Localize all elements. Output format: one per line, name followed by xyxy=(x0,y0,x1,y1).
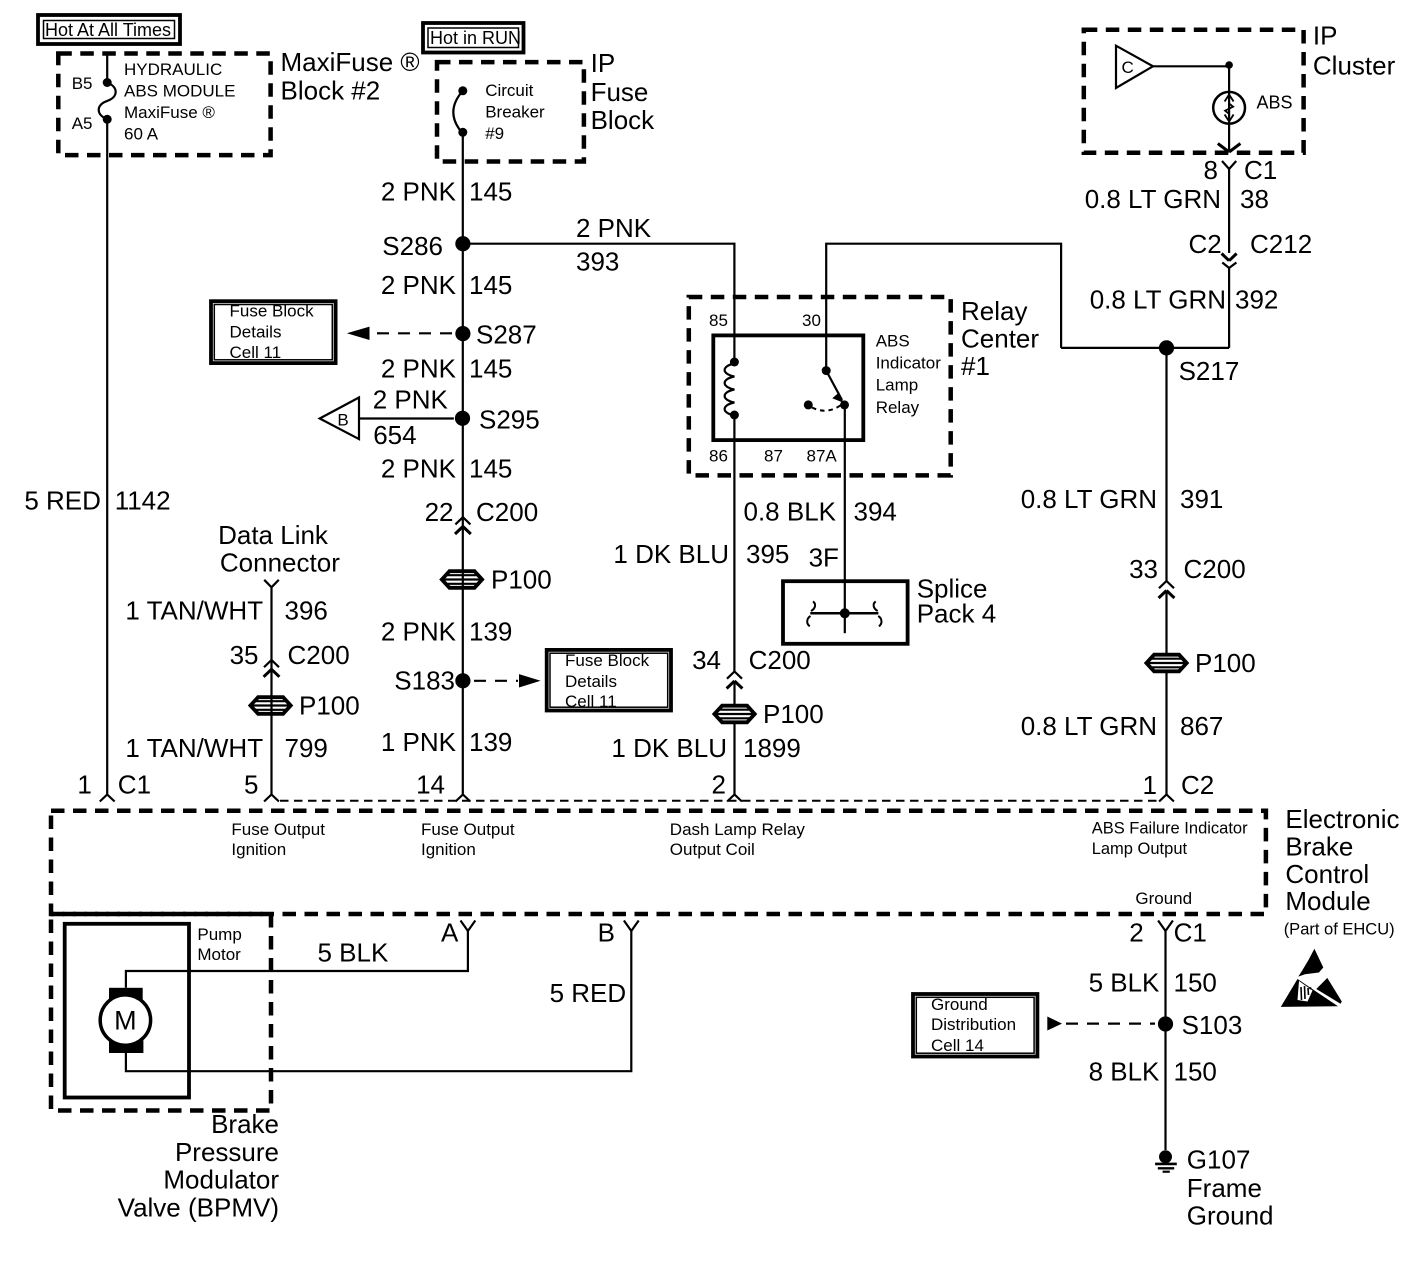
svg-text:Frame: Frame xyxy=(1187,1173,1262,1203)
svg-text:Output Coil: Output Coil xyxy=(670,840,755,859)
terminal A chevron Y xyxy=(461,921,476,932)
svg-text:0.8 LT GRN: 0.8 LT GRN xyxy=(1021,711,1157,741)
svg-text:#9: #9 xyxy=(485,124,504,143)
label 1 TAN/WHT 799 xyxy=(125,733,328,763)
svg-text:S286: S286 xyxy=(382,231,443,261)
svg-text:Pump: Pump xyxy=(197,925,241,944)
svg-text:Circuit: Circuit xyxy=(485,81,533,100)
svg-text:#1: #1 xyxy=(961,351,990,381)
svg-text:S183: S183 xyxy=(394,666,455,696)
svg-text:Ignition: Ignition xyxy=(231,840,286,859)
svg-text:ABS MODULE: ABS MODULE xyxy=(124,82,235,101)
node S295 xyxy=(455,411,470,426)
svg-text:2: 2 xyxy=(712,770,726,800)
svg-text:35: 35 xyxy=(230,640,259,670)
svg-text:Electronic: Electronic xyxy=(1285,804,1399,834)
wire 2 PNK 145 / 1 PNK 139 (breaker down to module pin 14) xyxy=(462,132,464,794)
label Relay Center #1 xyxy=(961,296,1039,381)
svg-text:0.8 BLK: 0.8 BLK xyxy=(743,497,836,527)
svg-text:Data Link: Data Link xyxy=(218,520,329,550)
svg-text:Brake: Brake xyxy=(1285,831,1353,861)
svg-text:2 PNK: 2 PNK xyxy=(373,385,449,415)
label 8 BLK 150 xyxy=(1089,1057,1217,1087)
svg-text:ABS: ABS xyxy=(876,332,910,351)
reference triangle B with wire 2 PNK 654 xyxy=(320,398,454,440)
svg-text:1: 1 xyxy=(1143,770,1157,800)
svg-text:Distribution: Distribution xyxy=(931,1015,1016,1034)
terminal 1 C1 chevron xyxy=(100,795,115,802)
svg-text:C1: C1 xyxy=(1244,155,1277,185)
svg-text:Fuse Output: Fuse Output xyxy=(231,820,325,839)
label 5 RED 1142 xyxy=(24,486,170,516)
svg-text:Module: Module xyxy=(1285,886,1370,916)
svg-text:139: 139 xyxy=(469,617,512,647)
svg-text:Motor: Motor xyxy=(197,945,241,964)
label Electronic Brake Control Module xyxy=(1284,804,1400,938)
connector C200 pin 22 inline symbol xyxy=(455,517,471,534)
wire 0.8 LT GRN 391 (S217 to C200) xyxy=(1165,348,1167,581)
svg-text:C2: C2 xyxy=(1188,229,1221,259)
label 5 BLK 150 xyxy=(1089,968,1217,998)
svg-text:Fuse Output: Fuse Output xyxy=(421,820,515,839)
svg-text:Lamp Output: Lamp Output xyxy=(1092,840,1188,858)
svg-text:145: 145 xyxy=(469,270,512,300)
svg-text:8 BLK: 8 BLK xyxy=(1089,1057,1160,1087)
svg-text:Pressure: Pressure xyxy=(175,1137,279,1167)
label 2 PNK 654 xyxy=(373,385,449,451)
svg-text:C1: C1 xyxy=(118,770,151,800)
svg-text:P100: P100 xyxy=(1195,648,1256,678)
svg-text:HYDRAULIC: HYDRAULIC xyxy=(124,60,222,79)
svg-text:Indicator: Indicator xyxy=(876,354,942,373)
motor M xyxy=(100,988,150,1053)
svg-text:145: 145 xyxy=(469,454,512,484)
svg-text:1 PNK: 1 PNK xyxy=(381,727,457,757)
svg-text:C200: C200 xyxy=(288,640,350,670)
svg-text:M: M xyxy=(114,1006,137,1036)
connector C200 pin 35 inline symbol xyxy=(264,660,280,677)
svg-text:14: 14 xyxy=(416,770,445,800)
svg-text:1 TAN/WHT: 1 TAN/WHT xyxy=(125,595,263,625)
label Data Link Connector xyxy=(218,520,340,578)
svg-text:Pack 4: Pack 4 xyxy=(917,599,997,629)
detail box Ground Distribution Cell 14 xyxy=(913,994,1037,1057)
svg-text:S295: S295 xyxy=(479,405,540,435)
svg-text:Fuse: Fuse xyxy=(591,77,649,107)
svg-text:S217: S217 xyxy=(1179,356,1240,386)
splice pack 4 box SP4 xyxy=(783,581,908,644)
svg-text:Ignition: Ignition xyxy=(421,840,476,859)
svg-text:394: 394 xyxy=(854,497,897,527)
svg-text:Fuse Block: Fuse Block xyxy=(230,302,315,321)
svg-text:A: A xyxy=(441,917,459,947)
svg-text:5 RED: 5 RED xyxy=(550,978,627,1008)
node S103 xyxy=(1158,1016,1173,1031)
label MaxiFuse Block #2 xyxy=(281,47,420,105)
dashed reference arrow S183 to fuse block details xyxy=(474,674,541,687)
connector P100 on dk blu wire xyxy=(714,699,823,729)
svg-text:C212: C212 xyxy=(1250,229,1312,259)
node S217 xyxy=(1159,340,1174,355)
svg-text:ABS: ABS xyxy=(1257,93,1293,113)
label IP Cluster xyxy=(1313,20,1396,80)
wire 0.8 LT GRN 867 (P100 to module pin 1 C2) xyxy=(1165,591,1167,795)
terminal 2 C1 label (ground output) xyxy=(1129,918,1207,948)
svg-text:2 PNK: 2 PNK xyxy=(576,213,652,243)
svg-text:Modulator: Modulator xyxy=(163,1165,279,1195)
label 34 C200 xyxy=(692,645,811,675)
label Fuse Output Ignition (pin 1) xyxy=(231,820,325,859)
svg-text:2 PNK: 2 PNK xyxy=(381,454,457,484)
svg-text:S287: S287 xyxy=(476,320,537,350)
label Fuse Output Ignition (pin 14) xyxy=(421,820,515,859)
label IP Fuse Block xyxy=(591,48,656,135)
svg-text:S103: S103 xyxy=(1182,1010,1243,1040)
terminal 2 chevron xyxy=(727,795,742,802)
label 0.8 LT GRN 392 xyxy=(1090,285,1279,315)
label 1 DK BLU 1899 xyxy=(611,733,800,763)
svg-text:0.8 LT GRN: 0.8 LT GRN xyxy=(1021,484,1157,514)
IP Fuse Block dashed box xyxy=(437,62,584,161)
svg-text:1 DK BLU: 1 DK BLU xyxy=(613,539,729,569)
svg-text:Connector: Connector xyxy=(220,548,340,578)
label 2 PNK 393 xyxy=(576,213,652,276)
svg-text:867: 867 xyxy=(1180,711,1223,741)
svg-text:Details: Details xyxy=(565,672,617,691)
svg-text:Ground: Ground xyxy=(931,995,988,1014)
label Dash Lamp Relay Output Coil xyxy=(670,820,806,859)
svg-text:86: 86 xyxy=(709,446,728,465)
svg-text:Cell 14: Cell 14 xyxy=(931,1036,984,1055)
svg-text:150: 150 xyxy=(1174,968,1217,998)
svg-text:1: 1 xyxy=(77,770,91,800)
svg-text:1142: 1142 xyxy=(115,486,171,516)
svg-text:5 BLK: 5 BLK xyxy=(1089,968,1160,998)
ESD symbol xyxy=(1281,949,1342,1007)
data link connector terminal Y xyxy=(264,580,279,795)
svg-text:396: 396 xyxy=(285,595,328,625)
detail box Fuse Block Details Cell 11 (left) xyxy=(211,301,336,363)
svg-text:C2: C2 xyxy=(1181,770,1214,800)
wire lamp to cluster exit xyxy=(1228,124,1230,151)
terminal 1 C1 label xyxy=(77,770,151,800)
svg-text:P100: P100 xyxy=(299,691,360,721)
svg-text:B5: B5 xyxy=(72,74,93,93)
label Circuit Breaker #9 xyxy=(485,81,545,143)
node S183 xyxy=(455,673,470,688)
svg-text:3F: 3F xyxy=(809,543,839,573)
svg-text:C200: C200 xyxy=(476,497,538,527)
svg-text:Details: Details xyxy=(230,323,282,342)
wire pin 30 (switch to top rail) xyxy=(826,244,1061,371)
svg-text:Center: Center xyxy=(961,324,1039,354)
wire 1 DK BLU 395 (pin 86 to C200) xyxy=(733,415,735,672)
detail box Fuse Block Details Cell 11 (right) xyxy=(547,650,671,711)
svg-text:C200: C200 xyxy=(1184,554,1246,584)
wire 0.8 BLK 394 (pin 87A to splice) xyxy=(844,405,846,613)
label 2 PNK 145 (3) xyxy=(381,354,513,384)
label 2 PNK 145 (4) xyxy=(381,454,513,484)
svg-text:30: 30 xyxy=(802,311,821,330)
svg-text:Ground: Ground xyxy=(1135,889,1192,908)
svg-text:Relay: Relay xyxy=(961,296,1027,326)
svg-text:C200: C200 xyxy=(749,645,811,675)
module connector thin dashed line xyxy=(280,800,1158,802)
svg-text:5 BLK: 5 BLK xyxy=(318,938,389,968)
svg-text:654: 654 xyxy=(373,420,416,450)
relay coil xyxy=(725,358,739,420)
label 2 PNK 145 (1) xyxy=(381,177,513,207)
wire 1 DK BLU 1899 (P100 to module pin 2) xyxy=(733,681,735,794)
svg-text:0.8 LT GRN: 0.8 LT GRN xyxy=(1085,184,1221,214)
node S286 xyxy=(455,236,470,251)
terminal 14 chevron xyxy=(456,795,471,802)
relay ABS Indicator Lamp Relay box xyxy=(713,335,863,440)
svg-text:5: 5 xyxy=(244,770,258,800)
svg-text:Control: Control xyxy=(1285,859,1369,889)
terminal 8 C1 label xyxy=(1204,155,1278,185)
svg-text:1899: 1899 xyxy=(743,733,801,763)
label 0.8 LT GRN 38 xyxy=(1085,184,1269,214)
svg-text:Hot in RUN: Hot in RUN xyxy=(430,28,521,48)
svg-text:ABS Failure Indicator: ABS Failure Indicator xyxy=(1092,820,1248,838)
indicator lamp ABS xyxy=(1213,92,1245,124)
pump motor box xyxy=(65,924,189,1098)
label ABS Failure Indicator Lamp Output xyxy=(1092,820,1248,859)
BPMV dashed box xyxy=(51,914,271,1111)
terminal 1 C2 label xyxy=(1143,770,1215,800)
svg-text:C1: C1 xyxy=(1174,918,1207,948)
svg-text:33: 33 xyxy=(1129,554,1158,584)
wire triangle C to lamp node xyxy=(1153,65,1229,67)
svg-text:A5: A5 xyxy=(72,114,93,133)
svg-text:87A: 87A xyxy=(807,446,838,465)
svg-text:Lamp: Lamp xyxy=(876,376,919,395)
terminal 5 chevron xyxy=(264,795,279,802)
label 1 TAN/WHT 396 xyxy=(125,595,328,625)
svg-text:799: 799 xyxy=(285,733,328,763)
svg-text:Block: Block xyxy=(591,105,656,135)
svg-text:Brake: Brake xyxy=(211,1109,279,1139)
svg-text:P100: P100 xyxy=(491,565,552,595)
svg-text:IP: IP xyxy=(1313,20,1338,50)
svg-text:0.8 LT GRN: 0.8 LT GRN xyxy=(1090,285,1226,315)
svg-text:60 A: 60 A xyxy=(124,124,159,143)
svg-text:1 TAN/WHT: 1 TAN/WHT xyxy=(125,733,263,763)
svg-text:391: 391 xyxy=(1180,484,1223,514)
svg-text:38: 38 xyxy=(1240,184,1269,214)
label ABS Indicator Lamp Relay xyxy=(876,332,942,417)
MaxiFuse Block dashed box xyxy=(58,54,270,156)
svg-text:Block #2: Block #2 xyxy=(281,75,381,105)
reference triangle C in cluster xyxy=(1116,46,1153,88)
label C2 C212 xyxy=(1188,229,1312,259)
label 33 C200 xyxy=(1129,554,1246,584)
label 22 C200 xyxy=(425,497,539,527)
dashed reference arrow ground distribution to S103 xyxy=(1047,1017,1155,1031)
connector C200 pin 33 inline symbol xyxy=(1159,581,1175,598)
svg-text:(Part of EHCU): (Part of EHCU) xyxy=(1284,920,1395,938)
label Brake Pressure Modulator Valve (BPMV) xyxy=(118,1109,280,1222)
wire 5 RED 1142 (A5 to module pin 1 C1) xyxy=(106,119,108,794)
svg-text:2 PNK: 2 PNK xyxy=(381,270,457,300)
svg-text:P100: P100 xyxy=(763,699,824,729)
wire 5 BLK (motor to terminal A) xyxy=(126,931,468,988)
svg-text:85: 85 xyxy=(709,311,728,330)
connector P100 on pink wire xyxy=(442,565,552,595)
terminal 8 C1 chevron Y xyxy=(1222,161,1236,253)
label 35 C200 xyxy=(230,640,350,670)
svg-text:C: C xyxy=(1122,58,1134,77)
svg-text:22: 22 xyxy=(425,497,454,527)
label Splice Pack 4 xyxy=(917,574,997,629)
connector P100 on lt grn wire xyxy=(1146,648,1255,678)
svg-text:1 DK BLU: 1 DK BLU xyxy=(611,733,727,763)
IP Cluster dashed box xyxy=(1084,30,1304,153)
svg-text:395: 395 xyxy=(746,539,789,569)
svg-text:2 PNK: 2 PNK xyxy=(381,177,457,207)
terminal B chevron Y xyxy=(624,921,639,932)
label 0.8 LT GRN 867 xyxy=(1021,711,1224,741)
svg-text:Ground: Ground xyxy=(1187,1201,1274,1231)
svg-text:B: B xyxy=(598,917,615,947)
wire 2 PNK 393 (S286 to relay pin 85) xyxy=(463,244,735,362)
svg-text:34: 34 xyxy=(692,645,721,675)
connector C212 inline symbol xyxy=(1222,254,1237,348)
node in cluster xyxy=(1225,61,1233,69)
svg-text:2 PNK: 2 PNK xyxy=(381,354,457,384)
label 1 PNK 139 xyxy=(381,727,513,757)
svg-text:145: 145 xyxy=(469,177,512,207)
svg-text:MaxiFuse ®: MaxiFuse ® xyxy=(281,47,420,77)
svg-text:IP: IP xyxy=(591,48,616,78)
label 2 PNK 145 (2) xyxy=(381,270,513,300)
svg-text:Dash Lamp Relay: Dash Lamp Relay xyxy=(670,820,806,839)
connector C200 pin 34 inline symbol xyxy=(727,672,743,689)
svg-text:Cell 11: Cell 11 xyxy=(230,343,282,362)
svg-text:MaxiFuse ®: MaxiFuse ® xyxy=(124,103,215,122)
wire into fuse from box top xyxy=(106,54,108,83)
svg-text:Cluster: Cluster xyxy=(1313,51,1396,81)
label Pump Motor xyxy=(197,925,241,964)
label G107 Frame Ground xyxy=(1187,1145,1274,1231)
wire node to lamp xyxy=(1228,66,1230,92)
svg-text:G107: G107 xyxy=(1187,1145,1251,1175)
connector P100 on data link wire xyxy=(250,691,359,721)
svg-text:Hot At All Times: Hot At All Times xyxy=(45,20,171,40)
title box Hot At All Times xyxy=(38,15,180,44)
label 0.8 BLK 394 xyxy=(743,497,896,527)
svg-text:Relay: Relay xyxy=(876,398,920,417)
label 2 PNK 139 xyxy=(381,617,513,647)
svg-text:392: 392 xyxy=(1235,285,1278,315)
terminal 1 C2 chevron xyxy=(1159,795,1174,802)
svg-text:Breaker: Breaker xyxy=(485,103,545,122)
label 0.8 LT GRN 391 xyxy=(1021,484,1224,514)
node S287 xyxy=(455,326,470,341)
svg-text:Cell 11: Cell 11 xyxy=(565,692,617,711)
svg-text:393: 393 xyxy=(576,247,619,277)
circuit breaker #9 xyxy=(453,86,467,137)
cluster exit arrow xyxy=(1218,144,1241,153)
svg-text:2 PNK: 2 PNK xyxy=(381,617,457,647)
svg-text:8: 8 xyxy=(1204,155,1218,185)
svg-text:139: 139 xyxy=(469,727,512,757)
svg-text:B: B xyxy=(337,410,348,429)
terminal 2 C1 chevron Y xyxy=(1158,921,1173,1151)
svg-text:2: 2 xyxy=(1129,918,1143,948)
svg-text:Valve (BPMV): Valve (BPMV) xyxy=(118,1192,279,1222)
svg-text:5 RED: 5 RED xyxy=(24,486,101,516)
svg-text:Fuse Block: Fuse Block xyxy=(565,651,650,670)
svg-text:150: 150 xyxy=(1174,1057,1217,1087)
Relay Center #1 dashed box xyxy=(689,297,951,475)
fuse MaxiFuse 60A element xyxy=(99,78,116,124)
relay switch xyxy=(804,366,849,411)
Electronic Brake Control Module dashed box xyxy=(51,811,1266,914)
label 1 DK BLU 395 xyxy=(613,539,789,569)
wire 5 RED (terminal B to motor) xyxy=(126,931,631,1071)
dashed reference arrow S287 to fuse block details xyxy=(347,327,452,340)
wire top rail to S217 xyxy=(1061,347,1229,349)
svg-text:145: 145 xyxy=(469,354,512,384)
label HYDRAULIC ABS MODULE MaxiFuse 60 A xyxy=(124,60,235,143)
svg-text:87: 87 xyxy=(764,446,783,465)
ground G107 xyxy=(1155,1150,1177,1171)
title box Hot in RUN xyxy=(423,23,524,53)
